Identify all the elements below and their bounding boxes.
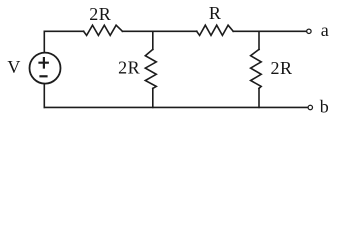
- wire: V source top lead up to top-left corner and right to resistor 2R: [44, 31, 83, 52]
- source body circle: [30, 53, 61, 84]
- wire: resistor R to terminal a: [233, 30, 306, 32]
- resistor 2R (series, left): [84, 25, 123, 35]
- svg-text:V: V: [7, 57, 20, 77]
- wire: resistor 2R to node at top of middle 2R: [122, 30, 152, 32]
- polarity mark +: [40, 58, 48, 67]
- resistor R (series, right): [197, 25, 234, 35]
- svg-text:2R: 2R: [270, 58, 292, 78]
- polarity mark -: [41, 75, 47, 77]
- resistor 2R (shunt, right): [251, 49, 262, 88]
- wire: bottom lead of right shunt resistor 2R: [258, 88, 260, 107]
- wire: node to resistor R: [153, 30, 197, 32]
- svg-text:2R: 2R: [89, 4, 111, 24]
- resistor 2R (shunt, middle): [145, 49, 156, 88]
- wire: top lead of right shunt resistor 2R: [258, 31, 260, 49]
- svg-text:b: b: [320, 96, 329, 116]
- terminal a (open circle): [307, 29, 311, 33]
- wire: bottom lead of middle shunt resistor 2R: [152, 88, 154, 107]
- terminal b (open circle): [308, 105, 312, 109]
- svg-text:R: R: [209, 3, 221, 23]
- svg-text:a: a: [321, 20, 329, 40]
- wire: V source bottom lead down to bottom-left corner: [43, 84, 45, 108]
- wire: bottom rail to terminal b: [44, 106, 308, 108]
- voltage source V: [30, 53, 61, 84]
- wire: top lead of middle shunt resistor 2R: [152, 31, 154, 49]
- svg-text:2R: 2R: [118, 58, 140, 78]
